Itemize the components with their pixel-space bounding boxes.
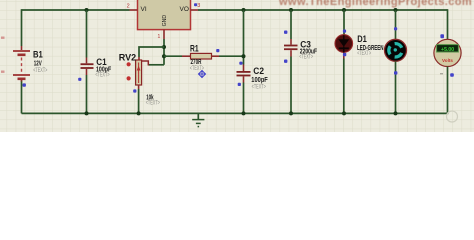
capacitor C2 xyxy=(237,65,251,83)
wire top rail left (B1 to regulator VI) xyxy=(22,9,130,11)
ground xyxy=(192,113,204,126)
wire D1 drop xyxy=(343,10,345,35)
wire C2 to bottom rail xyxy=(243,83,245,114)
wire regulator GND down xyxy=(163,39,165,65)
svg-text:VO: VO xyxy=(180,6,189,13)
left edge mark A xyxy=(1,37,5,39)
svg-text:270R: 270R xyxy=(191,59,202,66)
wire voltmeter to bottom rail xyxy=(447,67,449,115)
svg-text:1: 1 xyxy=(158,34,161,40)
svg-text:2: 2 xyxy=(127,3,130,9)
svg-text:+5.00: +5.00 xyxy=(441,47,454,53)
svg-text:R1: R1 xyxy=(190,43,199,53)
svg-text:100pF: 100pF xyxy=(251,77,267,84)
node RV2 bottom junction xyxy=(137,111,141,115)
node D1 bottom junction xyxy=(342,111,346,115)
wire B1 top drop xyxy=(21,9,23,46)
wire C2 drop xyxy=(243,10,245,65)
svg-text:Volts: Volts xyxy=(442,58,453,63)
RV2 pin dot bottom xyxy=(127,76,131,80)
wire C1 to bottom rail xyxy=(86,75,88,113)
C1 marker xyxy=(78,78,81,81)
svg-text:C2: C2 xyxy=(253,66,264,76)
resistor R1 xyxy=(182,53,219,59)
wire voltmeter drop xyxy=(447,9,449,39)
node C2/R1 junction xyxy=(242,54,246,58)
regulator U1 7805 box (top cropped) xyxy=(138,0,191,30)
RV2 marker xyxy=(133,89,136,92)
wire D1 to bottom rail xyxy=(343,59,345,114)
svg-text:<TEXT>: <TEXT> xyxy=(252,84,267,90)
wire RV2 to bottom rail xyxy=(138,89,140,113)
svg-text:<TEXT>: <TEXT> xyxy=(357,51,371,57)
svg-text:<TEXT>: <TEXT> xyxy=(146,100,161,106)
background grid xyxy=(0,0,474,132)
node GND/RV2-top junction xyxy=(162,45,166,49)
svg-text:GND: GND xyxy=(162,15,168,27)
svg-text:<TEXT>: <TEXT> xyxy=(33,68,48,74)
node C3 top junction xyxy=(289,8,293,12)
capacitor C3 xyxy=(284,39,298,57)
wire fan drop xyxy=(395,10,397,40)
C2 markers xyxy=(239,62,242,65)
wire wiper horizontal xyxy=(148,64,164,66)
potentiometer RV2 xyxy=(136,57,142,89)
node C3 bottom junction xyxy=(289,111,293,115)
wire B1 bottom drop xyxy=(21,81,23,114)
svg-text:RV2: RV2 xyxy=(119,52,136,62)
wire C3 to bottom rail xyxy=(290,57,292,114)
svg-text:<TEXT>: <TEXT> xyxy=(299,55,313,61)
marker near VO xyxy=(194,3,197,6)
R1 origin marker xyxy=(198,70,206,78)
wire fan to bottom rail xyxy=(395,61,397,113)
LED D1 xyxy=(335,35,353,59)
fan markers xyxy=(394,27,397,30)
battery B1 xyxy=(13,46,30,82)
svg-text:3: 3 xyxy=(197,3,200,9)
faint watermark circle xyxy=(447,111,458,122)
svg-text:VI: VI xyxy=(141,6,147,13)
D1 markers xyxy=(343,30,346,33)
C3 markers xyxy=(284,31,287,34)
node C2 top junction xyxy=(242,8,246,12)
wire C1 drop xyxy=(86,10,88,58)
node C1 top junction xyxy=(85,8,89,12)
svg-text:<TEXT>: <TEXT> xyxy=(95,73,110,79)
RV2 pin dot top xyxy=(127,62,131,66)
node GND/R1 junction xyxy=(162,54,166,58)
node D1 top junction xyxy=(342,8,346,12)
capacitor C1 xyxy=(81,58,94,76)
wire C3 drop xyxy=(290,10,292,39)
voltmeter xyxy=(434,39,461,66)
node fan bottom junction xyxy=(394,111,398,115)
wire top rail right (VO to voltmeter) xyxy=(198,9,448,11)
B1 marker xyxy=(23,83,26,86)
voltmeter markers xyxy=(440,34,444,38)
wire R1 right to C2 node xyxy=(219,55,244,57)
left edge mark B xyxy=(1,71,5,73)
node C2 bottom junction xyxy=(242,111,246,115)
svg-text:www.TheEngineeringProjects.com: www.TheEngineeringProjects.com xyxy=(278,0,472,8)
svg-text:D1: D1 xyxy=(357,34,367,44)
svg-text:12V: 12V xyxy=(34,60,42,67)
RV2 wiper stub xyxy=(142,61,149,66)
wire to RV2 top xyxy=(139,47,164,57)
fan/motor M1 xyxy=(385,39,407,61)
wire bottom rail xyxy=(22,112,448,114)
wire R1 left xyxy=(164,55,182,57)
node C1 bottom junction xyxy=(85,111,89,115)
R1 marker xyxy=(216,49,219,52)
svg-text:B1: B1 xyxy=(33,49,43,59)
node fan top junction xyxy=(394,8,398,12)
